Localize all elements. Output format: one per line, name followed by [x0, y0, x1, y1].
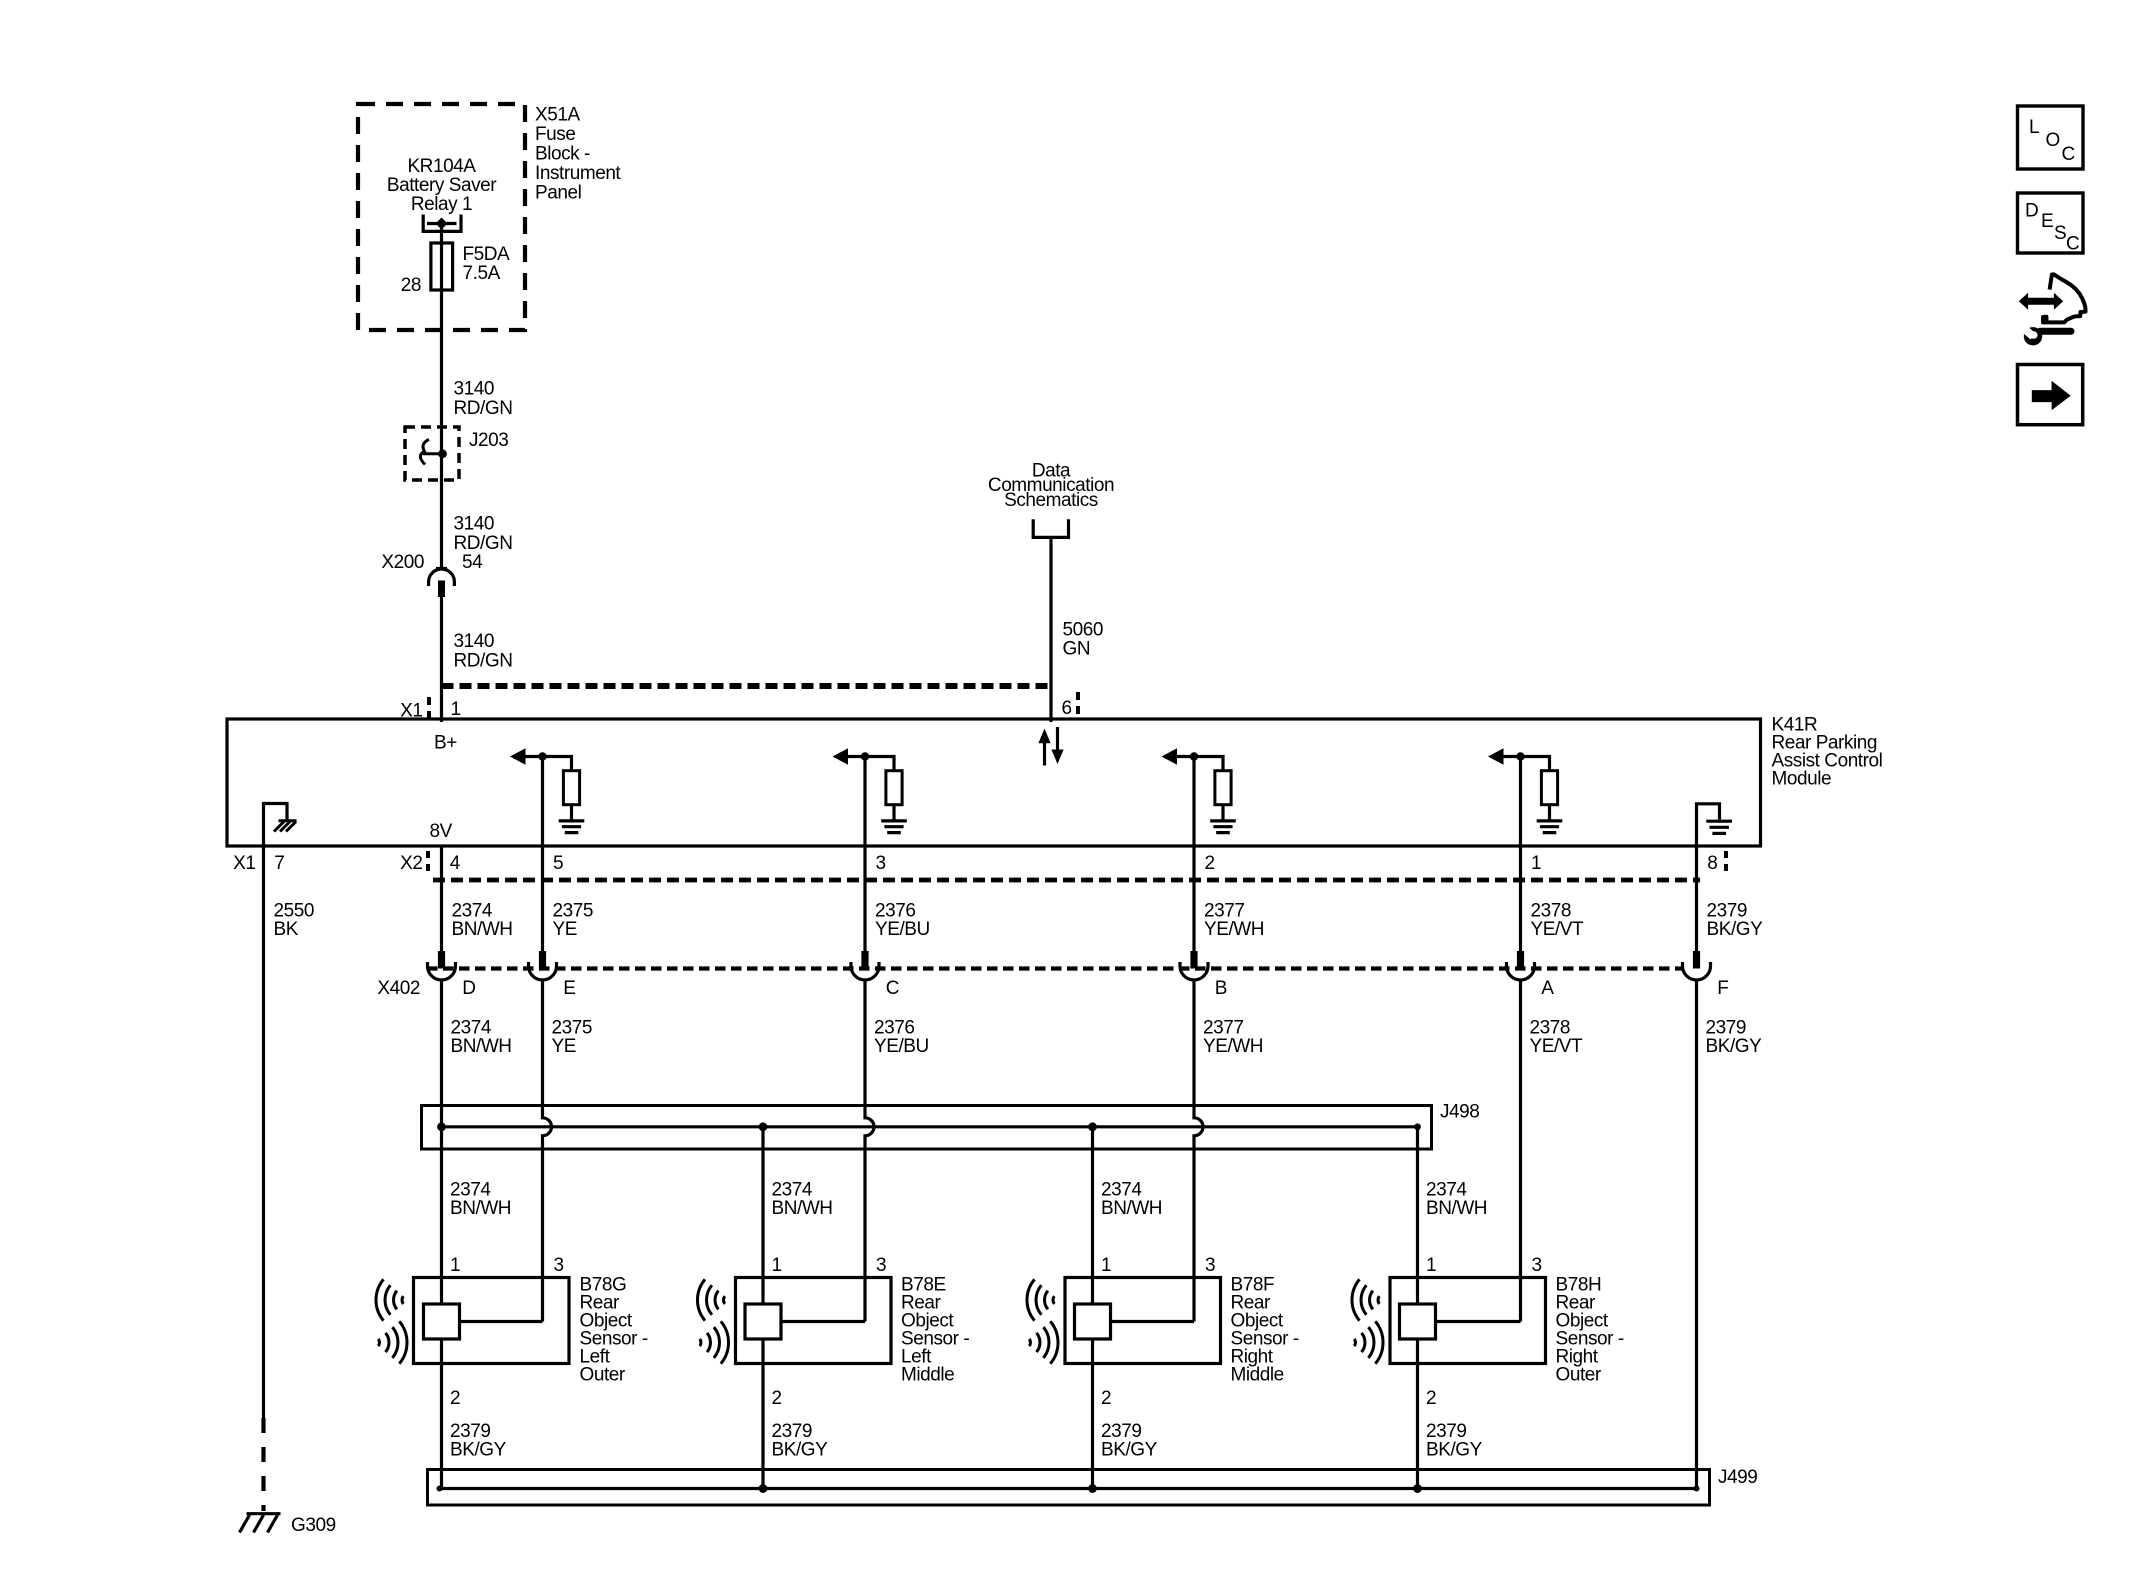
- connector X200 pin 54: [429, 569, 455, 598]
- wire pin4 to X402-D: [440, 846, 443, 951]
- label X51A Fuse Block - Instrument Panel: [535, 105, 621, 204]
- connector X1 bracket left: [427, 697, 431, 722]
- splice pack J498: [422, 1106, 1432, 1150]
- wire to sensor2 pin1: [761, 1127, 764, 1304]
- module internal ground at X2-8: [1697, 804, 1733, 846]
- terminal letters: [462, 978, 1728, 999]
- svg-text:Relay 1: Relay 1: [411, 194, 472, 215]
- resistor to ground: [563, 771, 579, 805]
- wire 2550 BK from X1-7: [262, 846, 265, 1418]
- svg-text:YE: YE: [553, 919, 577, 940]
- svg-text:BN/WH: BN/WH: [1426, 1198, 1487, 1219]
- sensor B78F Rear Object Sensor - Right Middle: [1027, 1278, 1221, 1364]
- svg-text:3140: 3140: [454, 514, 494, 535]
- label Data Communication Schematics: [988, 461, 1114, 511]
- svg-text:RD/GN: RD/GN: [454, 398, 513, 419]
- terminal E: [539, 951, 546, 969]
- wire pin2 to X402-B: [1192, 846, 1195, 951]
- wire A to sensor4 pin3: [1519, 981, 1522, 1322]
- terminal B: [1190, 951, 1197, 969]
- svg-text:YE/WH: YE/WH: [1204, 919, 1264, 940]
- wire J203 to X200: [440, 428, 443, 569]
- svg-text:F: F: [1717, 978, 1728, 999]
- label 3140 RD/GN: [454, 631, 513, 672]
- label F5DA 7.5A: [463, 244, 511, 284]
- module internal ground at X1-7: [264, 804, 297, 847]
- resistor to ground: [1215, 771, 1231, 805]
- wire B to sensor3 pin3 with hop over J498 bus: [1194, 981, 1203, 1322]
- svg-text:BK/GY: BK/GY: [1707, 919, 1764, 940]
- connector X2 bracket right: [1724, 851, 1728, 874]
- pin labels under module: [274, 853, 1717, 874]
- terminal D: [438, 951, 445, 969]
- svg-text:B+: B+: [434, 733, 457, 754]
- connector X2 dashed line: [433, 878, 1700, 883]
- svg-text:BN/WH: BN/WH: [772, 1198, 833, 1219]
- svg-text:1: 1: [1101, 1255, 1111, 1276]
- module data arrows at pin 6: [1038, 727, 1063, 766]
- driver output pin 1: [1519, 757, 1522, 847]
- label B78G Rear Object Sensor - Left Outer: [580, 1275, 648, 1386]
- svg-text:D: D: [462, 978, 475, 999]
- svg-text:E: E: [563, 978, 575, 999]
- wire labels row 2: [451, 1018, 1763, 1058]
- svg-text:Schematics: Schematics: [1004, 490, 1098, 511]
- svg-text:1: 1: [451, 699, 461, 720]
- ground: [1537, 821, 1563, 833]
- label KR104A Battery Saver Relay 1: [387, 156, 497, 215]
- wire labels row 1: [274, 901, 1764, 941]
- svg-text:X200: X200: [381, 552, 424, 573]
- sensor B78G Rear Object Sensor - Left Outer: [376, 1278, 569, 1364]
- svg-text:3: 3: [876, 853, 886, 874]
- wire 2550 BK dashed segment: [261, 1418, 265, 1511]
- svg-text:KR104A: KR104A: [407, 156, 476, 177]
- splice pack J499: [428, 1470, 1710, 1506]
- resistor to ground: [1541, 771, 1557, 805]
- svg-text:YE: YE: [552, 1036, 576, 1057]
- svg-text:2: 2: [1426, 1388, 1436, 1409]
- wire pin1 to X402-A: [1519, 846, 1522, 951]
- svg-text:1: 1: [450, 1255, 460, 1276]
- connector X1 bracket right: [1076, 692, 1080, 717]
- wire to sensor3 pin1: [1091, 1127, 1094, 1304]
- svg-text:BN/WH: BN/WH: [451, 1036, 512, 1057]
- svg-text:BK: BK: [274, 919, 299, 940]
- svg-text:3: 3: [554, 1255, 564, 1276]
- svg-text:C: C: [2062, 144, 2075, 165]
- driver cells (sonar output drivers): [510, 748, 584, 846]
- wire sensor4 pin2: [1416, 1339, 1419, 1489]
- svg-text:D: D: [2025, 201, 2038, 222]
- svg-text:2: 2: [450, 1388, 460, 1409]
- svg-text:3: 3: [1205, 1255, 1215, 1276]
- svg-text:8: 8: [1707, 853, 1717, 874]
- svg-text:2: 2: [1101, 1388, 1111, 1409]
- wire pin5 to X402-E: [541, 846, 544, 951]
- svg-text:Middle: Middle: [901, 1365, 954, 1386]
- svg-text:C: C: [886, 978, 899, 999]
- wire pin3 to X402-C: [863, 846, 866, 951]
- svg-text:Outer: Outer: [580, 1365, 626, 1386]
- svg-text:O: O: [2046, 130, 2060, 151]
- sensor pin number labels: [450, 1255, 1542, 1409]
- svg-text:3140: 3140: [454, 631, 494, 652]
- terminal F: [1693, 951, 1700, 969]
- ground: [559, 821, 585, 833]
- sensor B78H Rear Object Sensor - Right Outer: [1352, 1278, 1546, 1364]
- svg-text:BK/GY: BK/GY: [772, 1440, 829, 1461]
- wire sensor1 pin2: [440, 1339, 443, 1489]
- svg-text:S: S: [2054, 223, 2066, 244]
- svg-text:YE/BU: YE/BU: [875, 919, 930, 940]
- svg-text:7.5A: 7.5A: [463, 263, 501, 284]
- wire fuse to J203: [440, 290, 443, 428]
- module K41R Rear Parking Assist Control Module: [227, 719, 1761, 846]
- labels 2379 BK/GY below sensors: [450, 1421, 1483, 1461]
- svg-text:G309: G309: [291, 1515, 336, 1536]
- resistor to ground: [886, 771, 902, 805]
- svg-text:BK/GY: BK/GY: [450, 1440, 507, 1461]
- svg-text:1: 1: [1426, 1255, 1436, 1276]
- connector X402 dashed line: [427, 966, 1684, 970]
- svg-text:8V: 8V: [430, 821, 453, 842]
- icon LOC box: [2018, 106, 2084, 169]
- svg-text:4: 4: [450, 853, 461, 874]
- wire to sensor4 pin1: [1416, 1127, 1419, 1304]
- svg-text:BK/GY: BK/GY: [1426, 1440, 1483, 1461]
- svg-text:Outer: Outer: [1556, 1365, 1602, 1386]
- svg-text:3: 3: [1532, 1255, 1542, 1276]
- wire data line to module pin X1-6: [1049, 537, 1052, 722]
- svg-text:X1: X1: [233, 853, 255, 874]
- ground: [1210, 821, 1236, 833]
- ground G309: [240, 1514, 281, 1533]
- driver output pin 2: [1192, 757, 1195, 847]
- splice J203 pigtail: [420, 440, 447, 465]
- wires X402 down: [442, 981, 1697, 1489]
- svg-text:C: C: [2066, 234, 2079, 255]
- driver output pin 3: [863, 757, 866, 847]
- wire X200 to module pin X1-1: [440, 597, 443, 722]
- terminal A: [1517, 951, 1524, 969]
- splice J203 dashed box: [405, 427, 459, 480]
- terminal C: [861, 951, 868, 969]
- relay KR104A contact: [423, 215, 461, 232]
- svg-text:J499: J499: [1718, 1467, 1757, 1488]
- icon next-page arrow box: [2018, 365, 2083, 425]
- svg-text:X51A: X51A: [535, 105, 580, 126]
- svg-text:Battery Saver: Battery Saver: [387, 175, 497, 196]
- svg-text:B: B: [1215, 978, 1227, 999]
- wires J498 to sensor pins 1: [763, 1127, 1418, 1304]
- icon DESC box: [2018, 193, 2084, 255]
- label 3140 RD/GN: [454, 379, 513, 420]
- svg-text:3: 3: [876, 1255, 886, 1276]
- svg-text:YE/WH: YE/WH: [1203, 1036, 1263, 1057]
- fuse block X51A dashed box: [358, 104, 525, 330]
- svg-text:2: 2: [1205, 853, 1215, 874]
- connector X1 dashed line: [442, 683, 1052, 689]
- fuse F5DA 7.5A: [431, 243, 453, 290]
- wire E to sensor1 pin3 with hop over J498 bus: [543, 981, 552, 1322]
- svg-text:GN: GN: [1063, 639, 1091, 660]
- wire relay to fuse: [440, 225, 443, 243]
- connector X402 terminals: [428, 951, 1711, 980]
- svg-text:BK/GY: BK/GY: [1101, 1440, 1158, 1461]
- svg-text:Panel: Panel: [535, 183, 581, 204]
- svg-text:L: L: [2029, 117, 2039, 138]
- wire C to sensor2 pin3 with hop over J498 bus: [865, 981, 874, 1322]
- svg-text:Module: Module: [1772, 769, 1832, 790]
- svg-text:1: 1: [772, 1255, 782, 1276]
- wire sensor3 pin2: [1091, 1339, 1094, 1489]
- svg-text:BN/WH: BN/WH: [452, 919, 513, 940]
- svg-text:Fuse: Fuse: [535, 124, 575, 145]
- sensor B78E Rear Object Sensor - Left Middle: [697, 1278, 891, 1364]
- svg-text:E: E: [2041, 211, 2053, 232]
- svg-text:YE/VT: YE/VT: [1531, 919, 1584, 940]
- svg-text:BK/GY: BK/GY: [1706, 1036, 1763, 1057]
- wire D to splice J498: [440, 981, 443, 1305]
- labels 2374 BN/WH above sensors: [450, 1180, 1487, 1220]
- svg-text:Middle: Middle: [1231, 1365, 1284, 1386]
- svg-text:BN/WH: BN/WH: [450, 1198, 511, 1219]
- svg-text:3140: 3140: [454, 379, 494, 400]
- svg-text:BN/WH: BN/WH: [1101, 1198, 1162, 1219]
- driver output pin 5: [541, 757, 544, 847]
- svg-text:J498: J498: [1440, 1102, 1479, 1123]
- svg-text:7: 7: [274, 853, 284, 874]
- label B78H Rear Object Sensor - Right Outer: [1556, 1275, 1624, 1386]
- svg-text:YE/VT: YE/VT: [1530, 1036, 1583, 1057]
- wire sensor2 pin2: [761, 1339, 764, 1489]
- svg-text:1: 1: [1531, 853, 1541, 874]
- svg-text:X402: X402: [377, 978, 420, 999]
- label 3140 RD/GN: [454, 514, 513, 555]
- svg-text:RD/GN: RD/GN: [454, 651, 513, 672]
- label B78F Rear Object Sensor - Right Middle: [1231, 1275, 1299, 1386]
- svg-text:YE/BU: YE/BU: [874, 1036, 929, 1057]
- off-page connector bracket: [1033, 519, 1068, 537]
- label 5060 GN: [1063, 620, 1103, 660]
- svg-text:2: 2: [772, 1388, 782, 1409]
- svg-text:28: 28: [401, 275, 421, 296]
- ground: [881, 821, 907, 833]
- svg-text:5060: 5060: [1063, 620, 1103, 641]
- connector X2 bracket left: [426, 851, 430, 874]
- svg-text:6: 6: [1062, 698, 1072, 719]
- svg-text:Instrument: Instrument: [535, 163, 621, 184]
- wires module pins to X402: [442, 846, 1697, 951]
- wires sensors pin2 to J499: [442, 1339, 1418, 1489]
- svg-text:54: 54: [462, 552, 483, 573]
- svg-text:Block -: Block -: [535, 144, 590, 165]
- svg-text:5: 5: [553, 853, 563, 874]
- wire pin8 to X402-F: [1695, 846, 1698, 951]
- icon vehicle service (double arrow, car outline, wrench): [2013, 274, 2086, 345]
- svg-text:X2: X2: [400, 853, 422, 874]
- label K41R Rear Parking Assist Control Module: [1772, 715, 1883, 790]
- svg-text:A: A: [1541, 978, 1554, 999]
- label B78E Rear Object Sensor - Left Middle: [901, 1275, 969, 1386]
- wire F to splice J499: [1695, 981, 1698, 1489]
- svg-text:F5DA: F5DA: [463, 244, 511, 265]
- svg-text:RD/GN: RD/GN: [454, 533, 513, 554]
- svg-text:J203: J203: [469, 430, 508, 451]
